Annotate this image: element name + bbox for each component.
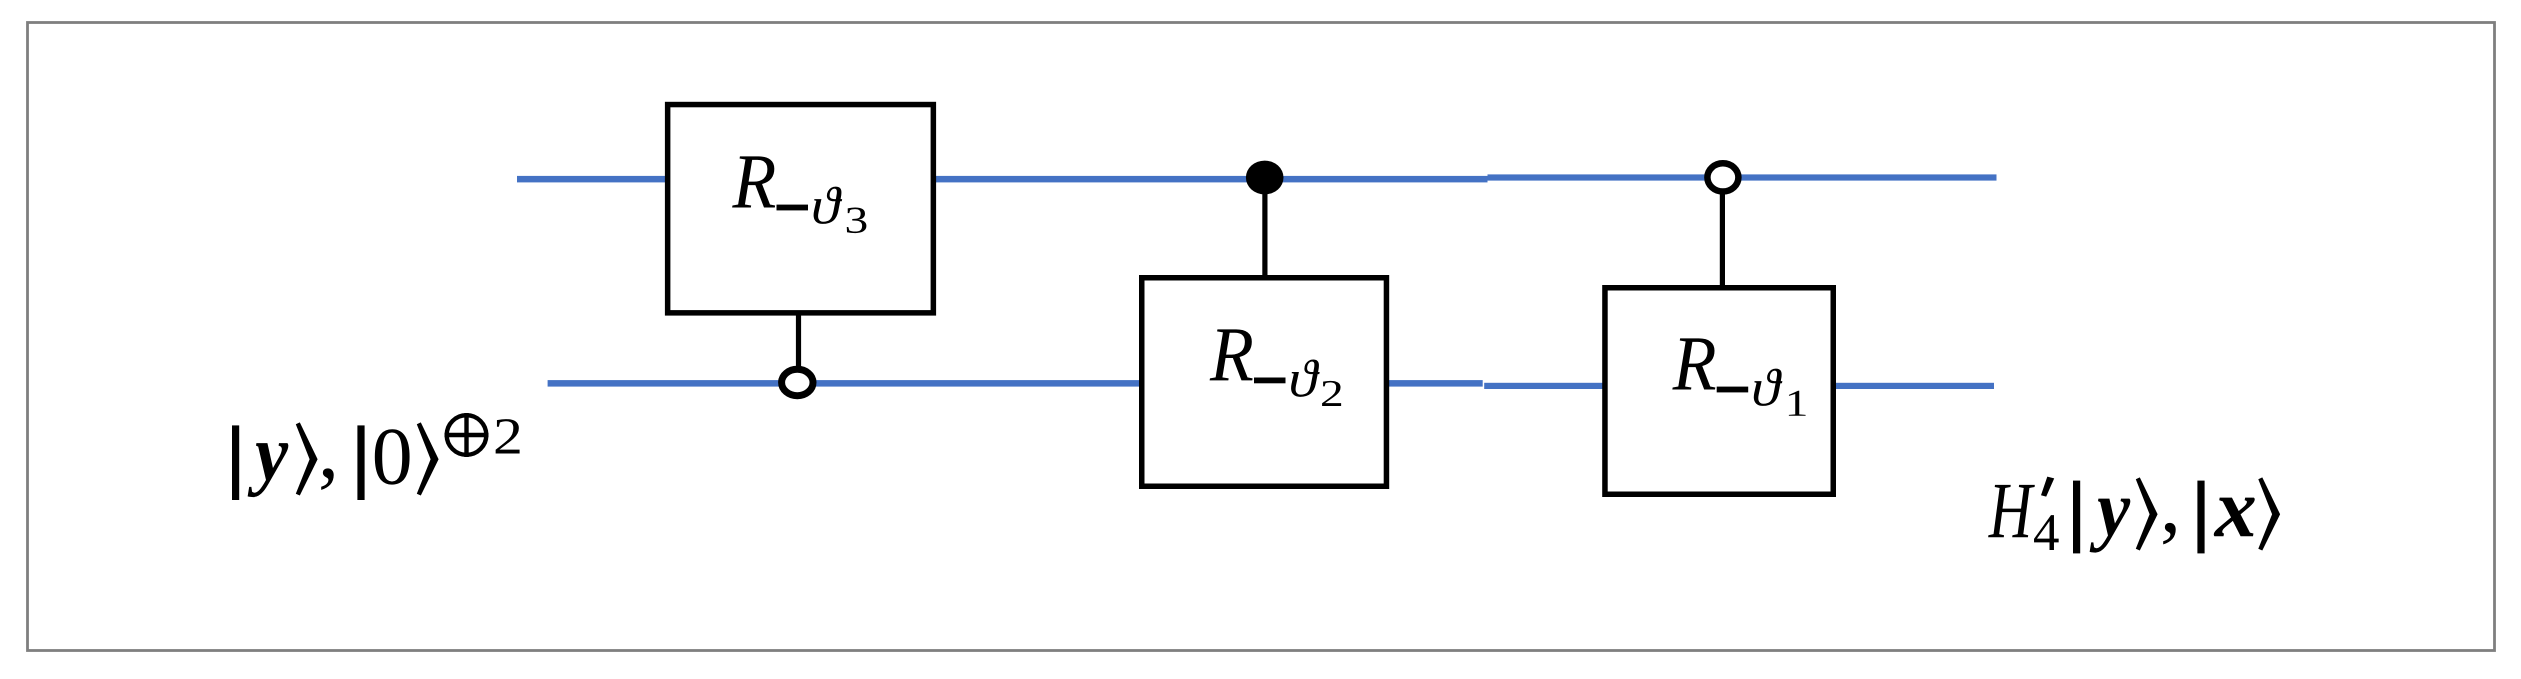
digit zero bbox=[375, 429, 410, 484]
ket bar bbox=[2073, 481, 2080, 554]
ket bar 2 bbox=[357, 425, 364, 500]
input label ket-y, ket-0 oplus 2 bbox=[232, 413, 520, 500]
open control circle on top wire (gate R-theta1) bbox=[1707, 163, 1738, 191]
italic H bbox=[1988, 485, 2035, 537]
comma bbox=[2163, 523, 2176, 545]
wire: bottom qubit line, right segment bbox=[1484, 383, 1994, 389]
gate box R-theta3 bbox=[668, 105, 934, 313]
gate box R-theta1 bbox=[1605, 288, 1833, 495]
gate box R-theta2 bbox=[1142, 278, 1387, 487]
control stub of gate R-theta2 bbox=[1262, 177, 1267, 279]
wire: bottom qubit line, left segment bbox=[548, 380, 1483, 387]
filled control dot on top wire (gate R-theta2) bbox=[1246, 161, 1284, 195]
bold italic y bbox=[2090, 499, 2131, 553]
wire: top qubit line, right segment bbox=[1488, 174, 1997, 180]
superscript 2 bbox=[496, 419, 520, 453]
right angle bracket bbox=[2136, 477, 2158, 550]
circled plus superscript bbox=[447, 415, 487, 455]
control stub of gate R-theta3 bbox=[796, 312, 801, 384]
open control circle on bottom wire (gate R-theta3) bbox=[782, 369, 813, 395]
gate label R-theta1 bbox=[1672, 338, 1805, 415]
gate label R-theta3 bbox=[732, 156, 866, 233]
bold italic x bbox=[2214, 498, 2255, 537]
wire: top qubit line, left segment bbox=[517, 176, 1488, 183]
right angle bracket 2 bbox=[417, 422, 439, 495]
control stub of gate R-theta1 bbox=[1720, 177, 1725, 289]
ket bar 2 bbox=[2197, 481, 2204, 554]
gate label R-theta2 bbox=[1210, 329, 1342, 406]
bold italic y bbox=[248, 443, 289, 497]
right angle bracket 2 bbox=[2258, 477, 2280, 550]
output label H-prime-4 ket-y, ket-x bbox=[1988, 477, 2280, 554]
subscript 4 bbox=[2034, 515, 2059, 550]
prime bbox=[2041, 477, 2054, 497]
comma bbox=[321, 468, 334, 490]
right angle bracket 1 bbox=[296, 422, 318, 495]
ket bar 1 bbox=[232, 425, 239, 500]
